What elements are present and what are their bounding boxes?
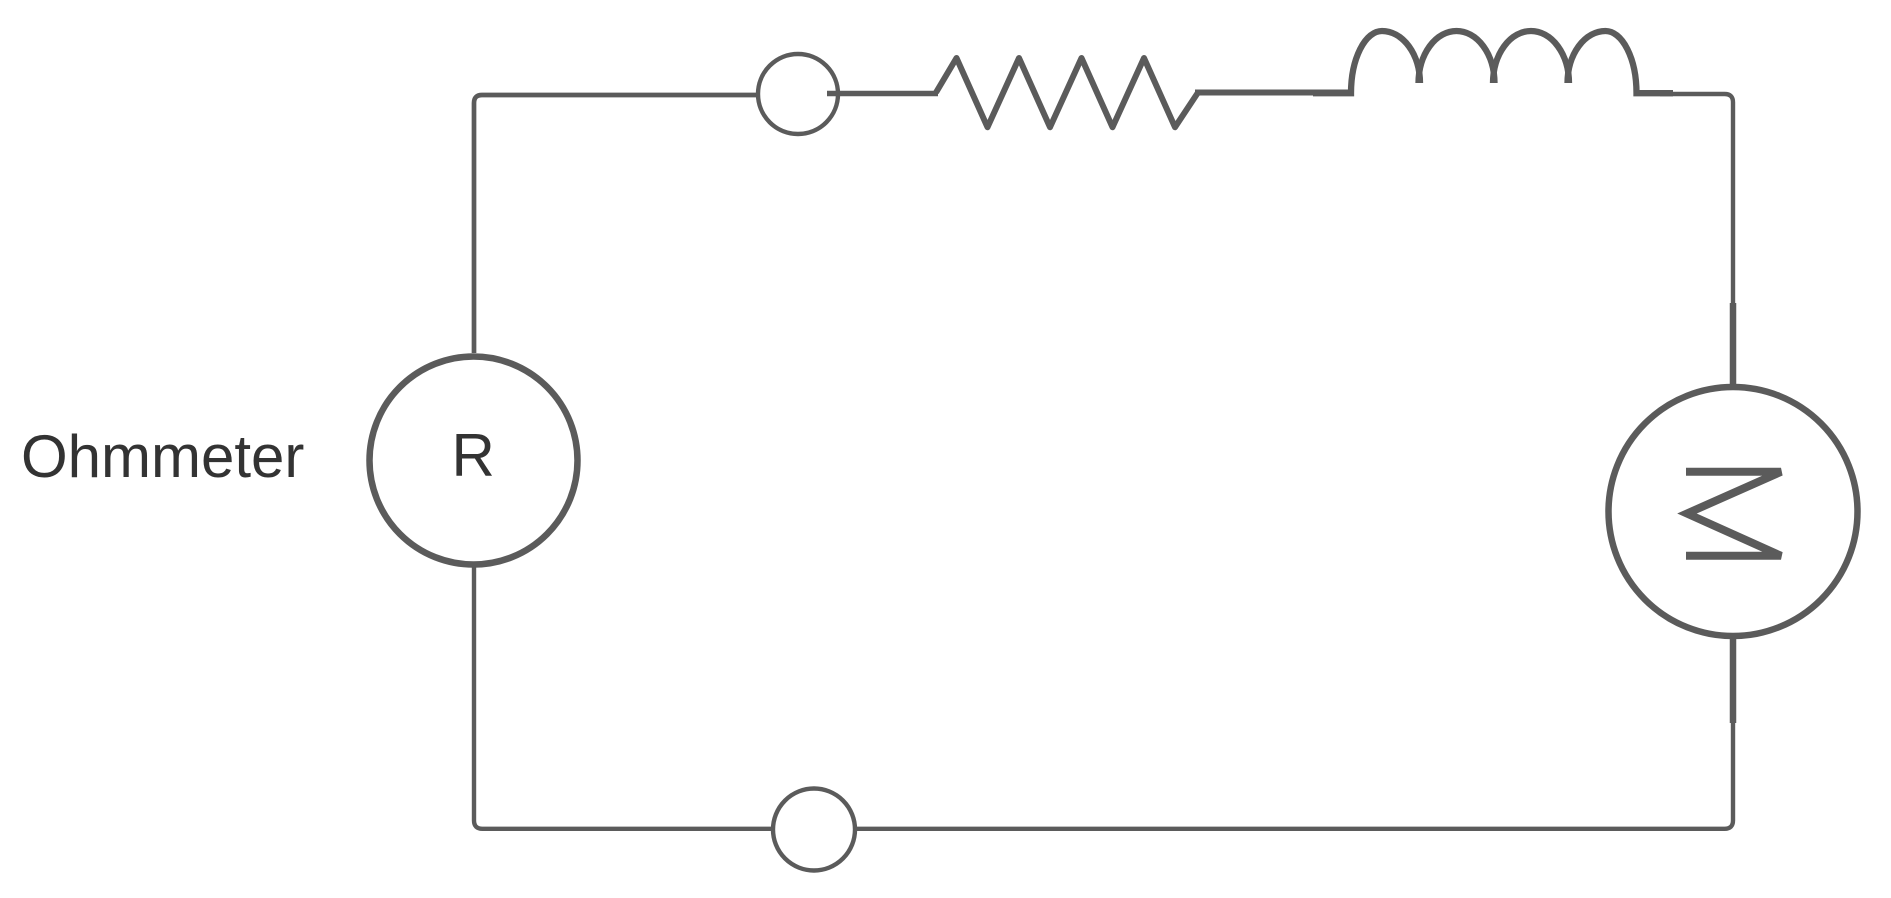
svg-text:R: R xyxy=(452,422,495,489)
svg-text:Ohmmeter: Ohmmeter xyxy=(21,423,304,490)
